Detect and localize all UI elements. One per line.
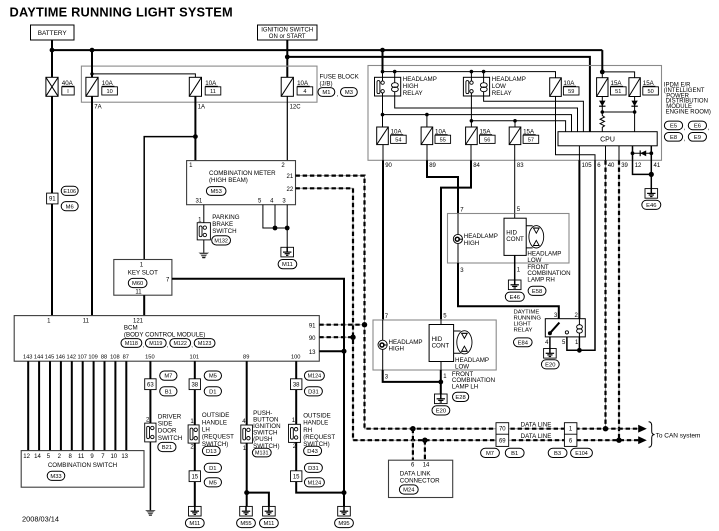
connector M5 oval xyxy=(204,371,221,380)
wire to M95 ground xyxy=(343,493,345,507)
svg-text:DATA LINE: DATA LINE xyxy=(521,421,552,428)
svg-text:E58: E58 xyxy=(532,289,542,295)
svg-text:HEADLAMP: HEADLAMP xyxy=(492,76,526,83)
svg-text:(J/B): (J/B) xyxy=(320,81,333,88)
svg-text:70: 70 xyxy=(499,427,506,433)
svg-text:E46: E46 xyxy=(510,295,520,301)
svg-text:(REQUEST: (REQUEST xyxy=(202,434,234,441)
svg-text:14: 14 xyxy=(34,454,41,460)
wire meter pin21 CAN-H dashed xyxy=(296,176,639,429)
wire BCM pin100 to handle RH xyxy=(295,361,297,424)
parking brake switch connector xyxy=(197,223,210,240)
wire branch to M11 ground xyxy=(247,493,269,507)
junction fuse55 tap xyxy=(425,113,429,117)
wire handle LH to ground xyxy=(194,443,196,506)
svg-text:FUSE BLOCK: FUSE BLOCK xyxy=(320,74,360,81)
junction DRL pin1/5/6 xyxy=(577,348,582,353)
relay lo contact bottom xyxy=(470,90,473,93)
svg-text:E104: E104 xyxy=(575,451,588,457)
svg-text:E5: E5 xyxy=(670,124,677,130)
wire pin90 to lamp LH pin7 xyxy=(382,160,384,320)
svg-text:B1: B1 xyxy=(165,389,172,395)
wire pin39 dashed xyxy=(618,160,620,440)
svg-text:RELAY: RELAY xyxy=(403,90,423,97)
svg-text:RELAY: RELAY xyxy=(514,328,533,334)
svg-text:E28: E28 xyxy=(455,395,465,401)
svg-text:BRAKE: BRAKE xyxy=(212,221,233,228)
svg-text:6: 6 xyxy=(597,163,601,169)
wire hi coil to CPU xyxy=(395,96,578,132)
svg-text:,: , xyxy=(191,343,193,349)
svg-text:M124: M124 xyxy=(308,374,322,380)
svg-text:l: l xyxy=(67,89,68,95)
wire pin89 to lamp RH pin7 xyxy=(427,160,458,213)
combination switch box xyxy=(21,451,144,488)
svg-text:E20: E20 xyxy=(436,409,446,415)
wire lamp RH pin5 to HID xyxy=(514,214,516,219)
wire meter pin5 xyxy=(263,205,287,228)
svg-text:HANDLE: HANDLE xyxy=(202,419,227,426)
svg-text:E46: E46 xyxy=(646,203,656,209)
svg-text:DAYTIME RUNNING LIGHT SYSTEM: DAYTIME RUNNING LIGHT SYSTEM xyxy=(10,5,233,20)
svg-text:M33: M33 xyxy=(50,474,61,480)
fuse 40A fusible link xyxy=(46,77,58,96)
ground M11 (meter) xyxy=(281,247,294,257)
svg-text:DRIVER: DRIVER xyxy=(158,413,182,420)
svg-text:BCM: BCM xyxy=(124,324,138,331)
connector D43 xyxy=(304,446,322,455)
connector B3 oval (data) xyxy=(548,448,567,457)
svg-text:10: 10 xyxy=(110,454,117,460)
DRL relay box xyxy=(545,319,585,337)
wire pin40 dashed xyxy=(605,160,607,428)
svg-text:HIGH: HIGH xyxy=(403,83,418,90)
connector M118 xyxy=(121,339,142,348)
svg-text:7: 7 xyxy=(101,454,105,460)
svg-text:1A: 1A xyxy=(198,104,205,110)
svg-text:5: 5 xyxy=(517,207,521,213)
wire fuse51/50 feeds xyxy=(602,72,634,78)
svg-text:9: 9 xyxy=(90,454,94,460)
svg-text:,: , xyxy=(337,91,339,98)
wire battery feed xyxy=(51,40,53,77)
connector M131 xyxy=(252,448,271,457)
svg-text:M5: M5 xyxy=(209,374,217,380)
wire fuse59 to pin6 xyxy=(556,96,596,160)
svg-text:21: 21 xyxy=(287,174,294,180)
svg-text:BATTERY: BATTERY xyxy=(38,30,68,37)
junction relay lo contact feed xyxy=(470,70,474,74)
wire IPDM battery drop xyxy=(382,50,384,72)
svg-text:146: 146 xyxy=(56,355,66,361)
junction relay hi contact feed xyxy=(381,70,385,74)
bulb headlamp high RH xyxy=(453,234,462,243)
svg-text:150: 150 xyxy=(145,355,155,361)
wire BCM pin13 xyxy=(319,350,344,352)
svg-text:LOW: LOW xyxy=(492,83,506,90)
connector M60 xyxy=(128,278,147,287)
svg-text:5: 5 xyxy=(443,314,447,320)
fuse 10A #4 xyxy=(281,77,293,96)
wire key slot pin11 to BCM xyxy=(143,295,145,315)
svg-text:M122: M122 xyxy=(173,341,187,347)
svg-text:12C: 12C xyxy=(290,104,302,110)
svg-text:B3: B3 xyxy=(554,451,561,457)
svg-text:2: 2 xyxy=(190,444,194,450)
diode under fuse50 xyxy=(631,101,637,107)
svg-text:11: 11 xyxy=(135,290,142,296)
wire lamp LH pin1 to ground xyxy=(440,370,442,394)
svg-text:D31: D31 xyxy=(308,389,319,395)
svg-text:3: 3 xyxy=(460,268,464,274)
wire battery to fuses 51/50 xyxy=(601,50,603,72)
junction pin41 ground xyxy=(649,172,654,177)
svg-text:5: 5 xyxy=(47,454,51,460)
svg-text:63: 63 xyxy=(147,382,154,388)
arrow CAN lower xyxy=(638,436,647,444)
HID CONT box LH xyxy=(429,325,454,362)
svg-text:56: 56 xyxy=(484,137,490,143)
wire BCM pin150 to door switch xyxy=(149,361,151,423)
wire meter pin22 CAN-L dashed xyxy=(296,188,639,440)
connector M119 xyxy=(145,339,166,348)
connector M123 xyxy=(194,339,215,348)
ground M11 (handle LH) xyxy=(189,506,202,516)
fuse 10A #11 xyxy=(189,77,201,96)
svg-text:1: 1 xyxy=(140,262,144,268)
svg-text:CONT: CONT xyxy=(506,236,524,243)
connector M11 oval (meter) xyxy=(278,260,297,269)
junction diode50 out xyxy=(633,110,637,114)
svg-text:M119: M119 xyxy=(149,341,162,347)
connector E58 xyxy=(528,286,546,295)
svg-text:To CAN system: To CAN system xyxy=(656,432,701,439)
connector 38 (LH) xyxy=(189,379,200,390)
svg-text:15: 15 xyxy=(293,474,300,480)
svg-text:7: 7 xyxy=(385,314,389,320)
wire DLC pin6 dashed xyxy=(412,429,414,461)
wire lamp LH pin1 HID out xyxy=(440,362,442,371)
relay lo contact top xyxy=(470,81,473,84)
svg-text:1: 1 xyxy=(443,374,447,380)
wire pin41 xyxy=(650,146,652,189)
svg-text:B21: B21 xyxy=(162,445,172,451)
ground E46 (IPDM) xyxy=(645,189,658,199)
junction data line / pin39 xyxy=(616,438,621,443)
connector M55 oval xyxy=(237,518,256,527)
svg-text:22: 22 xyxy=(287,187,294,193)
ground M95 xyxy=(338,506,351,516)
svg-text:38: 38 xyxy=(293,382,300,388)
wire push button to grounds xyxy=(246,443,248,506)
junction key slot tap xyxy=(193,134,198,139)
HID CONT box RH xyxy=(504,218,526,255)
svg-text:7: 7 xyxy=(166,278,170,284)
svg-text:HEADLAMP: HEADLAMP xyxy=(403,76,437,83)
svg-text:COMBINATION METER: COMBINATION METER xyxy=(209,170,276,177)
connector D31 oval lower xyxy=(304,463,322,472)
connector D13 xyxy=(202,446,220,455)
svg-text:2008/03/14: 2008/03/14 xyxy=(22,515,59,524)
svg-text:CONT: CONT xyxy=(432,343,450,350)
svg-text:M5: M5 xyxy=(209,480,217,486)
wire lamp LH pin3 xyxy=(383,370,441,382)
svg-text:RH: RH xyxy=(303,427,312,434)
connector M7 oval (data) xyxy=(481,448,500,457)
svg-text:M60: M60 xyxy=(132,281,143,287)
relay hi contact top xyxy=(381,81,384,84)
svg-text:M1: M1 xyxy=(322,90,330,96)
connector 1/6 (data line) xyxy=(564,423,577,447)
wire pin39 in IPDM xyxy=(618,146,620,161)
wire pin105 to DRL relay pin2 xyxy=(578,160,580,318)
junction pin4/5 xyxy=(273,226,278,231)
svg-text:7A: 7A xyxy=(94,104,101,110)
connector M7 oval xyxy=(160,371,177,380)
svg-text:,: , xyxy=(684,125,686,131)
svg-text:OUTSIDE: OUTSIDE xyxy=(303,412,331,419)
wire diode12-41 link xyxy=(633,152,652,154)
svg-text:3: 3 xyxy=(385,374,389,380)
svg-text:4: 4 xyxy=(545,340,549,346)
junction fuse57 tap xyxy=(513,119,517,123)
battery box xyxy=(31,25,75,40)
wire relay stubs xyxy=(383,72,484,78)
wire meter pin31 to parking brake switch xyxy=(203,205,205,223)
svg-text:HIGH: HIGH xyxy=(464,240,479,247)
wire DRL pin5 xyxy=(567,337,580,350)
svg-text:13: 13 xyxy=(309,350,316,356)
DRL relay coil xyxy=(577,325,583,329)
connector 91 on battery wire xyxy=(47,193,58,204)
junction relay lo coil feed xyxy=(482,70,486,74)
connector 15 (RH) xyxy=(291,471,302,482)
wire 40A to BCM pin1 xyxy=(51,96,53,315)
connector M53 xyxy=(206,187,226,196)
fuse 10A #10 xyxy=(86,77,98,96)
connector E5 xyxy=(664,121,682,130)
fuse 10A #55 xyxy=(421,127,433,145)
junction diode51 out xyxy=(601,110,605,114)
svg-text:LAMP LH: LAMP LH xyxy=(452,383,478,390)
svg-text:88: 88 xyxy=(101,355,107,361)
ground E20 (lamp LH) xyxy=(435,394,448,404)
svg-text:M7: M7 xyxy=(486,451,494,457)
svg-text:1: 1 xyxy=(517,267,521,273)
junction ignition bus xyxy=(285,55,290,60)
svg-text:5: 5 xyxy=(258,199,262,205)
connector E46 oval (IPDM) xyxy=(642,200,661,209)
svg-text:5: 5 xyxy=(562,340,566,346)
connector 63 xyxy=(145,379,156,390)
svg-text:M95: M95 xyxy=(338,521,349,527)
junction pin91 CAN xyxy=(362,322,367,327)
svg-text:ON or START: ON or START xyxy=(269,34,306,40)
chassis ground (door switch) xyxy=(145,510,156,512)
connector M33 xyxy=(47,471,65,480)
svg-text:3: 3 xyxy=(282,199,286,205)
wire BCM pin89 to push button switch xyxy=(246,361,248,425)
connector M11 oval (handle LH) xyxy=(185,518,204,527)
connector E20 oval (DRL) xyxy=(541,360,559,369)
svg-text:100: 100 xyxy=(291,355,301,361)
svg-text:1: 1 xyxy=(189,163,193,169)
ground E46 (lamp RH) xyxy=(508,280,521,290)
svg-text:D1: D1 xyxy=(209,389,216,395)
connector M11 oval (push button) xyxy=(260,518,279,527)
relay lo coil xyxy=(480,83,487,88)
svg-text:4: 4 xyxy=(242,419,246,425)
svg-text:2: 2 xyxy=(58,454,62,460)
junction IPDM relay tap xyxy=(380,48,385,53)
BCM box xyxy=(14,316,319,362)
connector E9 xyxy=(688,133,706,142)
relay hi contact bottom xyxy=(381,90,384,93)
wire meter pin3 to ground xyxy=(286,205,288,248)
resistor in IPDM xyxy=(600,112,604,132)
svg-text:M124: M124 xyxy=(308,480,322,486)
svg-text:1: 1 xyxy=(190,419,194,425)
wire fuse57 out xyxy=(514,145,516,161)
svg-text:SWITCH: SWITCH xyxy=(212,228,236,235)
svg-text:HANDLE: HANDLE xyxy=(303,420,328,427)
relay hi coil xyxy=(392,83,399,88)
junction fuse11 tap xyxy=(90,72,93,75)
CPU box xyxy=(558,132,657,146)
outside handle LH connector xyxy=(188,425,199,443)
connector D1 oval lower xyxy=(204,463,221,472)
wire door switch to chassis ground xyxy=(149,442,151,511)
svg-text:KEY SLOT: KEY SLOT xyxy=(128,269,158,276)
svg-text:M118: M118 xyxy=(125,341,138,347)
wire DRL pin1 xyxy=(578,337,580,350)
wire lo coil to CPU xyxy=(484,96,584,132)
connector 38 (RH) xyxy=(291,379,302,390)
wire IPDM internal bus xyxy=(383,72,556,78)
svg-text:59: 59 xyxy=(568,89,574,95)
wire pin84 to lamp LH pin5 xyxy=(441,160,471,320)
relay hi armature xyxy=(377,81,380,94)
wire lo contact to fuses/CPU xyxy=(471,96,565,132)
svg-text:M6: M6 xyxy=(66,204,74,210)
junction push button grounds xyxy=(244,490,249,495)
svg-text:91: 91 xyxy=(309,323,316,329)
connector B21 xyxy=(158,442,176,451)
brace to CAN xyxy=(649,422,655,447)
wire lamp RH pin3 to DRL relay pin3 xyxy=(458,263,559,322)
svg-text:90: 90 xyxy=(309,336,316,342)
svg-text:E20: E20 xyxy=(545,362,555,368)
svg-text:M53: M53 xyxy=(211,189,222,195)
wire lamp RH pin1 to ground xyxy=(514,263,516,280)
relay hi contact wires xyxy=(382,77,384,96)
svg-text:LAMP RH: LAMP RH xyxy=(527,276,554,283)
bulb headlamp high LH xyxy=(378,340,387,349)
svg-text:38: 38 xyxy=(191,382,198,388)
svg-text:(REQUEST: (REQUEST xyxy=(303,434,335,441)
svg-text:87: 87 xyxy=(123,355,129,361)
svg-text:,: , xyxy=(143,343,145,349)
connector B1 oval xyxy=(160,387,177,396)
wire ignition bus to CPU xyxy=(287,57,590,132)
junction pin90 CAN xyxy=(350,335,355,340)
wire fuse11 feed xyxy=(92,74,195,77)
svg-text:LOW: LOW xyxy=(455,363,469,370)
svg-text:CPU: CPU xyxy=(600,137,615,144)
junction ground M95 branch xyxy=(342,490,347,495)
svg-text:M3: M3 xyxy=(345,90,353,96)
svg-text:M123: M123 xyxy=(198,341,212,347)
wire fuse54 out xyxy=(382,145,384,161)
push-button ignition switch connector xyxy=(241,425,253,443)
junction data line / DLC pin6 xyxy=(410,426,415,431)
svg-text:M11: M11 xyxy=(282,262,293,268)
IPDM E/R box xyxy=(368,66,662,161)
svg-text:DOOR: DOOR xyxy=(158,428,177,435)
ground M11 (push button) xyxy=(263,506,276,516)
connector E84 xyxy=(514,338,533,347)
svg-text:1: 1 xyxy=(575,340,579,346)
svg-text:6: 6 xyxy=(411,463,415,469)
fuse 15A #50 xyxy=(629,78,640,97)
svg-text:SIDE: SIDE xyxy=(158,421,172,428)
combination meter box xyxy=(187,161,296,205)
svg-text:69: 69 xyxy=(499,439,506,445)
relay headlamp high box xyxy=(375,77,401,96)
svg-text:39: 39 xyxy=(621,163,628,169)
svg-text:84: 84 xyxy=(473,163,480,169)
svg-text:PARKING: PARKING xyxy=(212,214,240,221)
svg-text:E8: E8 xyxy=(670,135,677,141)
svg-text:144: 144 xyxy=(34,355,44,361)
svg-text:D1: D1 xyxy=(209,466,216,472)
fuse 10A #54 xyxy=(377,127,389,145)
outside handle RH connector xyxy=(289,424,301,442)
junction battery/40A xyxy=(50,48,55,53)
junction pin3/5 xyxy=(285,226,290,231)
svg-text:54: 54 xyxy=(395,137,401,143)
connector M24 xyxy=(399,485,418,494)
svg-text:4: 4 xyxy=(270,199,274,205)
svg-text:31: 31 xyxy=(196,199,203,205)
wire fuse55 out xyxy=(426,145,428,161)
svg-text:10: 10 xyxy=(106,89,112,95)
front combination lamp LH box xyxy=(373,320,496,370)
svg-text:83: 83 xyxy=(517,163,524,169)
svg-text:M55: M55 xyxy=(240,521,251,527)
svg-text:M11: M11 xyxy=(189,521,200,527)
wire fuse11 to meter pin1 xyxy=(194,96,196,160)
fuse 15A #56 xyxy=(466,127,478,145)
svg-text:(BODY CONTROL MODULE): (BODY CONTROL MODULE) xyxy=(124,331,205,338)
svg-text:142: 142 xyxy=(67,355,77,361)
svg-text:E6: E6 xyxy=(694,124,701,130)
junction data line / DLC pin14 xyxy=(422,438,427,443)
wire ignition feed xyxy=(286,40,288,78)
svg-text:LH: LH xyxy=(202,427,210,434)
svg-text:(HIGH BEAM): (HIGH BEAM) xyxy=(209,177,248,184)
svg-text:E84: E84 xyxy=(518,340,529,346)
junction fuse10 tap xyxy=(90,48,95,53)
svg-text:143: 143 xyxy=(23,355,33,361)
wire lamp LH pin5 to HID xyxy=(440,320,442,325)
connector E106 xyxy=(61,186,78,195)
junction relay hi coil feed xyxy=(393,70,397,74)
svg-text:11: 11 xyxy=(78,454,85,460)
junction pin41 diode xyxy=(649,151,653,155)
wire diode link xyxy=(602,111,634,113)
svg-text:B1: B1 xyxy=(511,451,518,457)
